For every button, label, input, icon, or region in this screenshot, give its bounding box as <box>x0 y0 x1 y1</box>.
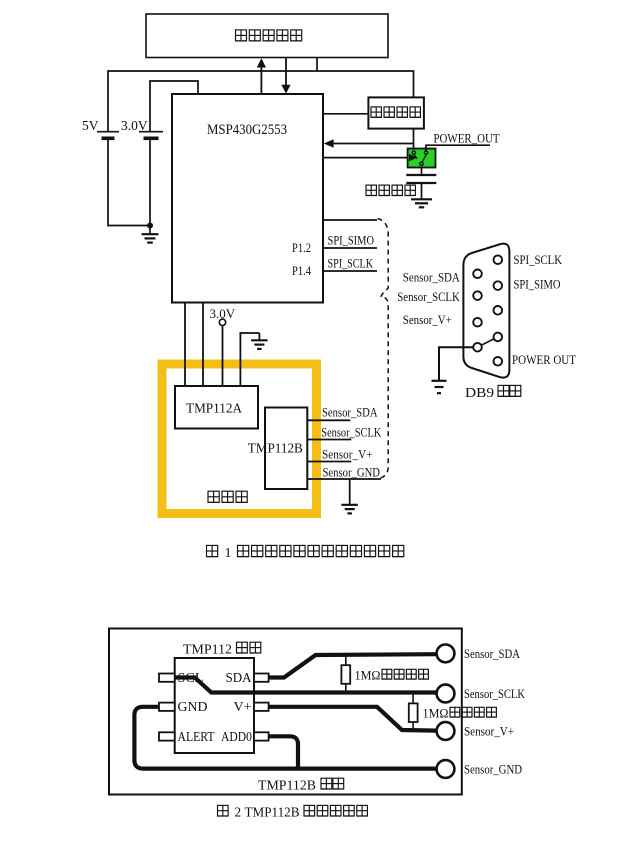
svg-text:3.0V: 3.0V <box>121 118 148 133</box>
cable bundle dashed boundary <box>378 219 389 479</box>
wire: 3.0V terminal to TMP112A <box>222 326 224 387</box>
svg-text:Sensor_SDA: Sensor_SDA <box>403 270 460 284</box>
wire: TMP112B Sensor_SCLK <box>307 439 351 441</box>
terminal circles Sensor_SDA/SCLK/V+/GND <box>437 645 455 663</box>
label 模块 (module) <box>321 778 344 789</box>
svg-text:Sensor_GND: Sensor_GND <box>323 465 381 479</box>
svg-text:Sensor_V+: Sensor_V+ <box>464 725 514 739</box>
wire: switch to capacitor <box>421 168 423 175</box>
wire: POWER_OUT stub <box>426 145 490 152</box>
ground: TMP112A <box>251 340 268 349</box>
caption fig2 模块结构图 <box>304 805 367 816</box>
svg-text:DB9: DB9 <box>465 386 494 401</box>
wire: MCU to TMP112A pin2 <box>202 303 204 387</box>
wire: TMP112B Sensor_V+ <box>307 461 351 463</box>
wire: ADD0 down to GND wire (thick) <box>269 736 298 768</box>
terminal 3.0V open circle <box>219 319 225 325</box>
wire: SPI_SIMO line <box>323 247 377 249</box>
resistor R1 1Mohm <box>341 665 350 684</box>
wire: DB9 ground wire <box>439 347 473 380</box>
svg-text:SCL: SCL <box>178 670 204 685</box>
junction dot batteries ground <box>147 223 153 229</box>
svg-text:ALERT: ALERT <box>178 729 216 744</box>
svg-text:Sensor_SDA: Sensor_SDA <box>464 647 520 661</box>
battery BT1 5V <box>97 132 119 139</box>
wire: R2 bottom lead <box>412 722 414 730</box>
arrowhead right into switch <box>409 154 417 161</box>
wire: jog 5V rail to display box <box>316 58 318 72</box>
arrowhead up into display box <box>257 58 266 67</box>
wire: R1 bottom lead <box>345 684 347 693</box>
battery BT2 3.0V <box>139 132 163 139</box>
sensor U3 TMP112B box <box>265 408 307 490</box>
svg-text:Sensor_V+: Sensor_V+ <box>322 448 373 462</box>
svg-text:TMP112A: TMP112A <box>186 402 243 417</box>
arrowhead down into MCU box <box>281 85 290 94</box>
wire: arrow display->MCU shaft <box>285 58 287 86</box>
svg-text:1MΩ: 1MΩ <box>423 707 449 721</box>
caption fig2 图 <box>218 805 229 816</box>
capacitor C1 (farad cap) <box>406 175 436 183</box>
svg-text:P1.2: P1.2 <box>292 241 311 255</box>
wire: charger down to switch <box>413 129 415 149</box>
connector J1 DB9 outline <box>463 244 509 378</box>
svg-text:Sensor_GND: Sensor_GND <box>464 763 522 777</box>
DB9 pins right column <box>494 255 503 264</box>
arrowhead left into MCU <box>324 139 334 148</box>
wire: TMP112A to ground L <box>240 333 259 386</box>
svg-text:TMP112B: TMP112B <box>245 805 300 820</box>
switch S1 (green box) <box>408 149 436 168</box>
resistor R2 1Mohm <box>409 703 418 722</box>
label 插座 (socket) <box>498 385 521 396</box>
svg-text:Sensor_V+: Sensor_V+ <box>403 313 452 327</box>
wire: DB9 pin link diagonal <box>478 337 498 347</box>
chip U4 TMP112 box <box>175 658 254 753</box>
ground: battery common <box>142 234 159 242</box>
svg-text:SPI_SIMO: SPI_SIMO <box>328 234 375 248</box>
svg-text:TMP112B: TMP112B <box>248 442 303 457</box>
label 显示和按键 (display and keys) <box>236 30 302 41</box>
caption fig1 图 <box>207 545 218 556</box>
svg-text:GND: GND <box>178 699 208 714</box>
wire: SCL inner segment (over chip) <box>175 678 254 693</box>
wire: SCL to Sensor_SCLK (thick) <box>175 678 437 693</box>
svg-text:1MΩ: 1MΩ <box>355 669 381 683</box>
svg-text:Sensor_SCLK: Sensor_SCLK <box>397 290 460 304</box>
label 变温腔 (variable temp chamber) <box>208 491 247 502</box>
caption fig1 标准测试仪器内部结构框图 <box>238 545 404 556</box>
wire: TMP112B Sensor_SDA <box>307 419 350 421</box>
sensor U2 TMP112A box <box>175 386 258 429</box>
ground: Sensor_GND <box>341 505 358 514</box>
svg-text:MSP430G2553: MSP430G2553 <box>207 122 287 138</box>
MCU U1 MSP430G2553 box <box>172 94 323 303</box>
wire: 5V negative to junction <box>108 138 150 225</box>
wire: SPI_SCLK line <box>323 270 377 272</box>
wire: 5V rail to charger <box>108 71 414 132</box>
svg-text:SPI_SCLK: SPI_SCLK <box>514 253 563 267</box>
wire: R1 top lead <box>345 655 347 665</box>
label 法拉电容 (farad capacitor) <box>366 185 415 195</box>
svg-text:POWER OUT: POWER OUT <box>512 353 576 367</box>
svg-text:2: 2 <box>235 805 242 820</box>
label R2 上拉电阻 (pull-up) <box>450 707 496 717</box>
wire: SDA to Sensor_SDA (thick) <box>269 654 437 677</box>
wire: capacitor to ground <box>421 183 423 199</box>
label R1 上拉电阻 (pull-up) <box>382 669 428 679</box>
svg-text:SDA: SDA <box>226 670 252 685</box>
wire: MCU aux line <box>323 219 377 221</box>
svg-text:TMP112B: TMP112B <box>258 779 316 794</box>
svg-text:Sensor_SCLK: Sensor_SCLK <box>464 687 525 701</box>
svg-text:Sensor_SCLK: Sensor_SCLK <box>321 425 381 439</box>
svg-text:1: 1 <box>225 546 232 561</box>
ground: capacitor <box>411 199 432 207</box>
svg-text:V+: V+ <box>234 699 252 714</box>
wire: junction to ground stub <box>149 226 151 234</box>
svg-text:SPI_SCLK: SPI_SCLK <box>328 257 374 271</box>
block: charger circuit box <box>368 97 424 128</box>
wire: ground stub TMP112A <box>258 333 260 340</box>
wire: TMP112B Sensor_GND <box>307 478 381 480</box>
wire: GND loop to Sensor_GND (thick) <box>134 707 436 769</box>
wire: arrow MCU->display shaft <box>260 67 262 95</box>
wire: R2 top lead <box>412 693 414 704</box>
svg-text:P1.4: P1.4 <box>292 264 312 278</box>
svg-text:ADD0: ADD0 <box>221 729 252 744</box>
chip pin pads <box>159 674 175 682</box>
svg-text:5V: 5V <box>82 118 99 133</box>
wire: switch rail to MCU arrow shaft <box>333 143 414 145</box>
svg-text:POWER_OUT: POWER_OUT <box>434 132 500 146</box>
module outline TMP112B 模块 <box>109 629 462 795</box>
ground: DB9 shell <box>432 381 447 393</box>
label 充电电路 (charging circuit) <box>371 107 420 117</box>
DB9 pins left column <box>473 270 482 279</box>
label 芯片 (chip) <box>237 642 261 653</box>
wire: MCU to charger <box>323 113 368 115</box>
block: display-and-keys box <box>146 14 388 58</box>
chamber box (yellow) 变温腔 <box>162 364 317 514</box>
wire: 3.0V negative to junction <box>149 138 151 225</box>
svg-text:TMP112: TMP112 <box>183 642 232 657</box>
svg-text:SPI_SIMO: SPI_SIMO <box>514 278 561 292</box>
wire: Sensor_GND to ground <box>349 479 351 504</box>
wire: V+ to Sensor_V+ (thick) <box>269 707 437 731</box>
svg-text:Sensor_SDA: Sensor_SDA <box>322 405 378 419</box>
wire: MCU to switch <box>323 157 410 159</box>
wire: 3.0V rail to MCU <box>150 81 198 132</box>
wire: MCU to TMP112A pin1 <box>184 303 186 387</box>
